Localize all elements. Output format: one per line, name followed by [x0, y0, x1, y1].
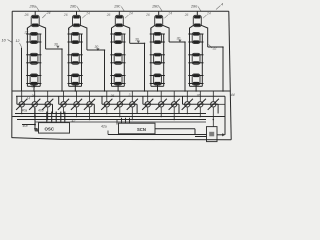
switch S13 — [42, 99, 53, 110]
wire drop S43 — [173, 108, 175, 120]
node drop S22 junction — [76, 116, 78, 118]
wire drop S22 — [76, 108, 78, 117]
switch S53 — [208, 99, 219, 110]
wire bottom arms of E44 — [150, 83, 165, 85]
svg-text:26: 26 — [24, 13, 29, 17]
node U1 tick 5 junction c — [64, 119, 66, 121]
node U1 tick 1 junction b — [46, 116, 48, 118]
element E52 (stacked cell) — [192, 33, 200, 44]
wire U1 input tick 3 — [55, 112, 57, 123]
wire feed of switch S42 — [160, 91, 162, 101]
node 40 junction b — [34, 124, 36, 126]
node output arrowhead — [222, 133, 225, 136]
svg-text:24: 24 — [85, 12, 90, 16]
element E33 (stacked cell) — [114, 53, 122, 64]
svg-text:34: 34 — [32, 85, 36, 89]
wire drop from column 3 stack to bottom bus — [117, 85, 119, 91]
element E22 (stacked cell) — [71, 33, 79, 44]
svg-text:28d: 28d — [151, 5, 159, 9]
wire switch chain 4 link — [143, 103, 179, 105]
node U1 tick 1 junction c — [46, 119, 48, 121]
label 24 col5 — [203, 12, 211, 19]
element E11 (top transducer cell) — [31, 15, 39, 26]
element E44 (stacked cell) — [154, 74, 162, 85]
wire U1 input tick 5 — [64, 112, 66, 123]
element E21 (top transducer cell) — [73, 15, 81, 26]
wire inner right rail of column 1 — [39, 34, 41, 86]
wire drop S23 — [89, 108, 91, 120]
svg-text:SCN: SCN — [137, 127, 146, 132]
wire top arms of E52 — [188, 33, 203, 35]
node 40 arrow into U1 — [34, 128, 39, 132]
switch S42 — [156, 99, 167, 110]
switch S11 — [16, 99, 27, 110]
wire feed of switch S52 — [199, 91, 201, 101]
svg-text:24: 24 — [128, 12, 133, 16]
element E42 (stacked cell) — [154, 33, 162, 44]
wire jog of column 1 tap — [46, 48, 62, 50]
node drop S12 junction — [34, 116, 36, 118]
box U2 scan control — [119, 123, 156, 134]
wire switch chain 2 link — [59, 103, 95, 105]
node U1 tick 2 junction c — [51, 119, 53, 121]
wire drop from column 5 stack to bottom bus — [195, 85, 197, 91]
element E31 (top transducer cell) — [115, 15, 123, 26]
wire feed to switch chain 4 — [142, 96, 144, 104]
switch S52 — [195, 99, 206, 110]
label 10 with arrow — [2, 39, 13, 43]
svg-text:26: 26 — [184, 13, 189, 17]
wire right arm of E41 — [162, 25, 169, 30]
wire U1 input tick 1 — [46, 112, 48, 123]
node drop S52 junction — [200, 116, 202, 118]
wire bottom arms of E34 — [110, 83, 125, 85]
wire drop from column 2 stack to bottom bus — [74, 85, 76, 91]
wire bottom arms of E53 — [188, 62, 203, 64]
label 28e — [190, 5, 201, 12]
wire bottom arms of E54 — [188, 83, 203, 85]
node U1 tick 3 junction b — [55, 116, 57, 118]
wire bottom arms of E13 — [26, 62, 41, 64]
element E24 (stacked cell) — [71, 74, 79, 85]
wire drop S51 — [186, 108, 188, 114]
wire tap line 1 down to bus — [61, 49, 63, 91]
wire bottom foot of column 1 ladder — [27, 85, 40, 87]
wire U2 output line — [155, 128, 195, 130]
wire left arm of E31 — [112, 25, 116, 30]
svg-text:28a: 28a — [29, 5, 36, 9]
label 24 col3 — [125, 12, 133, 19]
wire right arm of E21 — [80, 25, 87, 30]
wire switch chain 1 out — [52, 104, 54, 113]
switch S12 — [29, 99, 40, 110]
wire bottom arms of E22 — [68, 41, 83, 43]
svg-text:42a: 42a — [101, 125, 107, 129]
svg-text:26: 26 — [145, 13, 150, 17]
node U2 tick 3 junction — [129, 119, 131, 121]
svg-text:42: 42 — [72, 119, 76, 123]
wire drop from column 4 stack to bottom bus — [157, 85, 159, 91]
node column 5 stack-bus junction — [195, 90, 197, 92]
wire feed of switch S51 — [186, 91, 188, 101]
node drop S43 junction — [173, 119, 175, 121]
node tap 3 bus junction — [144, 90, 146, 92]
wire U1 input tick 2 — [51, 112, 53, 123]
wire inner right rail of column 3 — [123, 34, 125, 86]
wire link to output box — [108, 134, 207, 136]
wire feed of switch S31 — [106, 91, 108, 101]
svg-text:24: 24 — [206, 12, 211, 16]
wire left frame conductor — [11, 11, 13, 137]
wire top arms of E24 — [68, 75, 83, 77]
node drop S33 junction — [132, 119, 134, 121]
element E41 (top transducer cell) — [155, 15, 163, 26]
svg-text:28c: 28c — [113, 5, 120, 9]
wire right arm of E31 — [123, 25, 130, 30]
wire feed of switch S41 — [147, 91, 149, 101]
wire right arm of E51 — [201, 25, 208, 30]
node column 1 stack-bus junction — [33, 90, 35, 92]
wire feed to switch chain 3 — [101, 96, 103, 104]
wire bottom foot of column 3 ladder — [112, 85, 125, 87]
wire right frame conductor — [229, 11, 231, 140]
svg-text:24: 24 — [167, 12, 172, 16]
wire drop S32 — [119, 108, 121, 117]
label 12 — [16, 39, 22, 47]
element E51 (top transducer cell) — [193, 15, 201, 26]
label 36 a — [32, 94, 36, 98]
node tap 2 bus junction — [104, 90, 106, 92]
label 32 — [209, 45, 217, 51]
wire top arms of E44 — [150, 75, 165, 77]
element E12 (stacked cell) — [30, 33, 38, 44]
svg-text:28e: 28e — [190, 5, 197, 9]
svg-text:28b: 28b — [69, 5, 76, 9]
svg-text:32: 32 — [213, 47, 217, 51]
node drop S42 junction — [160, 116, 162, 118]
label 26 col3 — [106, 13, 111, 17]
wire top arms of E53 — [188, 54, 203, 56]
wire node 40 vertical — [34, 108, 36, 129]
wire U2 input tick 1 — [121, 118, 123, 123]
node U1 tick 3 junction a — [55, 113, 57, 115]
wire top arms of E43 — [150, 54, 165, 56]
wire top arms of E13 — [26, 54, 41, 56]
node U1 tick 2 junction b — [51, 116, 53, 118]
wire U2 left stub — [116, 120, 118, 125]
wire drop S13 — [47, 108, 49, 120]
wire tap line 4 down to bus — [184, 42, 186, 91]
wire top arms of E34 — [110, 75, 125, 77]
label 28d — [151, 5, 162, 12]
wire switch chain 3 link — [102, 103, 137, 105]
wire drop S52 — [199, 108, 201, 117]
wire U1 input tick 4 — [60, 112, 62, 123]
switch S51 — [182, 99, 193, 110]
svg-text:26: 26 — [106, 13, 111, 17]
wire stub from top bus to element E41 — [158, 11, 160, 15]
wire left rail of column 3 — [111, 28, 113, 86]
wire feed to switch chain 5 — [182, 96, 184, 104]
wire feed of switch S11 — [21, 91, 23, 101]
wire top arms of E14 — [26, 75, 41, 77]
label 28a — [29, 5, 40, 12]
label 30 gap1 — [54, 43, 60, 49]
wire right riser top link — [215, 103, 225, 105]
node tap 1 bus junction — [61, 90, 63, 92]
wire feed of switch S33 — [131, 91, 133, 101]
wire feed of switch S53 — [212, 91, 214, 101]
wire control bus 3 — [17, 119, 206, 121]
switch S31 — [101, 99, 112, 110]
wire right rail of column 3 — [129, 30, 131, 43]
wire bottom arms of E52 — [188, 41, 203, 43]
label U2 text — [137, 127, 146, 132]
wire 40c link — [22, 124, 35, 126]
element E53 (stacked cell) — [192, 53, 200, 64]
wire left arm of E51 — [190, 25, 194, 30]
label 22 — [24, 31, 29, 35]
wire bottom foot of column 5 ladder — [190, 85, 203, 87]
wire bottom arms of E23 — [68, 62, 83, 64]
label 42a — [101, 125, 107, 129]
svg-text:26: 26 — [63, 13, 68, 17]
label 26 col4 — [145, 13, 150, 17]
label 26 col2 — [63, 13, 68, 17]
wire bottom bus A — [12, 90, 230, 92]
wire jog of column 5 tap — [208, 46, 223, 48]
wire top arms of E54 — [188, 75, 203, 77]
node U1 tick 4 junction a — [60, 113, 62, 115]
node junction tap 3 — [144, 43, 146, 45]
wire top arms of E12 — [26, 33, 41, 35]
node U1 tick 4 junction b — [60, 116, 62, 118]
svg-text:40b: 40b — [38, 109, 44, 113]
wire top arms of E22 — [68, 33, 83, 35]
label 36 b — [111, 94, 115, 98]
element E34 (stacked cell) — [114, 74, 122, 85]
node U2 tick 1 junction — [121, 119, 123, 121]
wire tap line 5 down to bus — [222, 47, 224, 91]
wire switch chain 4 out — [178, 104, 180, 113]
label U3 marks — [209, 132, 214, 137]
node column 2 stack-bus junction — [75, 90, 77, 92]
wire control bus 4 — [35, 121, 206, 123]
node junction tap 4 — [184, 41, 186, 43]
label 28c — [113, 5, 124, 12]
switch S33 — [127, 99, 138, 110]
wire inner right rail of column 4 — [163, 34, 165, 86]
element E13 (stacked cell) — [30, 53, 38, 64]
node drop S23 junction — [89, 119, 91, 121]
svg-text:24: 24 — [46, 11, 51, 15]
wire feed to switch chain 2 — [58, 96, 60, 104]
wire stub from top bus to element E21 — [76, 11, 78, 15]
node junction tap 1 — [61, 48, 63, 50]
svg-text:40c: 40c — [23, 124, 29, 128]
wire bottom arms of E33 — [110, 62, 125, 64]
switch S41 — [142, 99, 153, 110]
wire switch chain 3 out — [136, 104, 138, 113]
label 40a — [22, 109, 28, 113]
wire jog of column 3 tap — [130, 42, 145, 44]
node U1 tick 5 junction b — [64, 116, 66, 118]
wire right arm of E11 — [39, 25, 46, 30]
box U3 output detector — [207, 127, 218, 142]
switch S23 — [84, 99, 95, 110]
node drop S41 junction — [147, 113, 149, 115]
label 30 gap4 — [177, 36, 182, 42]
wire control bus 1 — [15, 113, 206, 115]
label 40c — [23, 124, 29, 128]
switch S21 — [58, 99, 69, 110]
wire bottom arms of E12 — [26, 41, 41, 43]
label 26 col5 — [184, 13, 189, 17]
node drop S11 junction — [21, 113, 23, 115]
svg-text:36: 36 — [197, 94, 201, 98]
wire inner right rail of column 5 — [201, 34, 203, 86]
svg-text:36: 36 — [111, 94, 115, 98]
element E54 (stacked cell) — [192, 74, 200, 85]
label U1 text — [45, 126, 55, 131]
svg-text:OSC: OSC — [45, 126, 55, 131]
label 42 — [72, 119, 76, 123]
wire control bus 2 — [14, 116, 225, 118]
wire second link to output box — [195, 136, 207, 138]
wire feed of switch S32 — [119, 91, 121, 101]
element E23 (stacked cell) — [71, 53, 79, 64]
wire drop S31 — [106, 108, 108, 114]
label 44 top — [216, 3, 223, 10]
wire bottom arms of E42 — [150, 41, 165, 43]
wire stub from top bus to element E31 — [118, 11, 120, 15]
wire feed to switch chain 1 — [16, 96, 18, 104]
wire bottom arms of E24 — [68, 83, 83, 85]
wire switch chain 2 out — [93, 104, 95, 113]
wire bottom arms of E14 — [26, 83, 41, 85]
wire left arm of E41 — [151, 25, 155, 30]
wire left rail of column 2 — [68, 28, 70, 86]
node column 4 stack-bus junction — [157, 90, 159, 92]
wire stub from top bus to element E11 — [34, 11, 36, 15]
element E43 (stacked cell) — [154, 53, 162, 64]
wire left arm of E21 — [69, 25, 73, 30]
wire output arrow — [217, 134, 223, 136]
label 30 gap2 — [95, 45, 100, 51]
node drop S32 junction — [119, 116, 121, 118]
node tap 5 bus junction — [222, 90, 224, 92]
wire bottom frame conductor — [12, 138, 232, 140]
wire jog of column 2 tap — [87, 49, 105, 51]
label 36 c — [129, 93, 131, 97]
wire top arms of E32 — [110, 33, 125, 35]
box U1 oscillator — [39, 123, 70, 134]
label 14 — [27, 97, 31, 101]
label 24 col4 — [164, 12, 172, 19]
node junction tap 5 — [222, 46, 224, 48]
wire switch chain 1 link — [17, 103, 53, 105]
label 26 — [24, 13, 29, 17]
label 40b — [38, 109, 44, 113]
element E14 (stacked cell) — [30, 74, 38, 85]
wire feed of switch S13 — [47, 91, 49, 101]
switch S32 — [114, 99, 125, 110]
node drop S53 junction — [213, 119, 215, 121]
wire feed of switch S43 — [173, 91, 175, 101]
wire switch chain 5 link — [183, 103, 219, 105]
switch S43 — [169, 99, 180, 110]
label 44 right — [231, 93, 235, 97]
wire 42a tick — [107, 131, 109, 135]
node tap 4 bus junction — [184, 90, 186, 92]
wire top arms of E42 — [150, 33, 165, 35]
wire right riser — [224, 96, 226, 135]
svg-text:40a: 40a — [22, 109, 28, 113]
wire bottom foot of column 2 ladder — [69, 85, 82, 87]
label 28b — [69, 5, 80, 12]
node U1 tick 5 junction a — [64, 113, 66, 115]
wire drop S33 — [131, 108, 133, 120]
wire left rail of column 5 — [189, 28, 191, 86]
node U1 tick 4 junction c — [60, 119, 62, 121]
wire drop from column 1 stack to bottom bus — [33, 85, 35, 91]
wire feed of switch S12 — [34, 91, 36, 101]
node column 3 stack-bus junction — [117, 90, 119, 92]
wire feed of switch S23 — [89, 91, 91, 101]
label 24 col2 — [82, 12, 90, 19]
node drop S13 junction — [47, 119, 49, 121]
wire drop S12 — [34, 108, 36, 117]
wire right rail of column 2 — [86, 30, 88, 50]
wire drop S21 — [63, 108, 65, 114]
element E32 (stacked cell) — [114, 33, 122, 44]
wire left rail of column 1 — [26, 28, 28, 86]
wire top supply bus — [12, 10, 229, 12]
wire bottom bus B — [16, 95, 225, 97]
wire bottom arms of E43 — [150, 62, 165, 64]
node drop S31 junction — [106, 113, 108, 115]
svg-text:4: 4 — [221, 3, 223, 7]
node 40 junction a — [34, 116, 36, 118]
node U1 tick 3 junction c — [55, 119, 57, 121]
wire right rail of column 1 — [45, 30, 47, 49]
wire feed of switch S22 — [76, 91, 78, 101]
node U2 tick 2 junction — [125, 119, 127, 121]
wire link frame to node 40 — [12, 116, 35, 118]
wire top arms of E23 — [68, 54, 83, 56]
node drop S51 junction — [187, 113, 189, 115]
label 34 — [32, 85, 36, 89]
wire right rail of column 5 — [207, 30, 209, 47]
wire drop S11 — [21, 108, 23, 114]
wire top arms of E33 — [110, 54, 125, 56]
label 30 gap3 — [135, 37, 140, 43]
node U1 tick 2 junction a — [51, 113, 53, 115]
svg-text:36: 36 — [32, 94, 36, 98]
wire drop S42 — [160, 108, 162, 117]
wire switch chain 5 out — [217, 104, 219, 113]
svg-text:44: 44 — [231, 93, 235, 97]
wire tap line 2 down to bus — [104, 50, 106, 91]
wire drop S53 — [212, 108, 214, 127]
wire bottom foot of column 4 ladder — [151, 85, 164, 87]
wire jog of column 4 tap — [169, 41, 185, 43]
label 36 d — [197, 94, 201, 98]
wire bottom arms of E32 — [110, 41, 125, 43]
node U1 tick 1 junction a — [46, 113, 48, 115]
svg-text:22: 22 — [24, 31, 29, 35]
wire inner right rail of column 2 — [81, 34, 83, 86]
